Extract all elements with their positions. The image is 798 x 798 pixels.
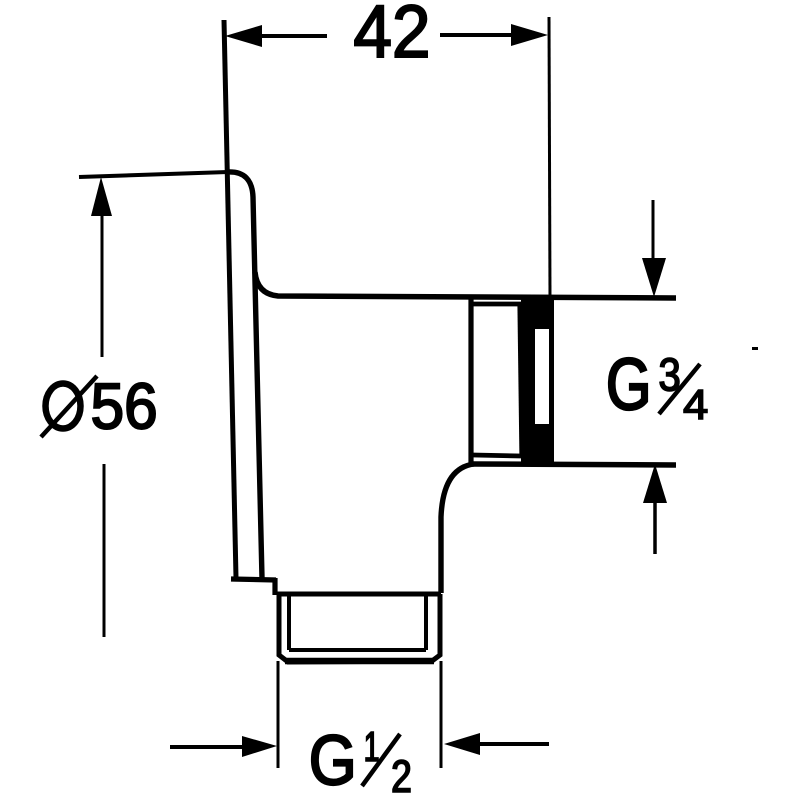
G1/2 dimension right arrowhead [444, 733, 480, 755]
diameter-56 upper arrow tail [101, 212, 104, 357]
neck top fillet and outlet top face line with extension [255, 272, 676, 298]
scan speck [752, 347, 758, 350]
G3/4 lower arrowhead [643, 464, 667, 503]
G3/4 female thread section (dark) [521, 299, 554, 462]
dimension text 56 [93, 383, 155, 429]
42 right extension line [549, 17, 550, 298]
G1/2 thread end face thick line [285, 658, 434, 665]
G1/2 dimension line right tail [478, 742, 549, 746]
G3/4 upper arrowhead [642, 258, 666, 297]
dimension text 42 [355, 5, 427, 57]
G3/4 upper arrow tail [652, 200, 655, 260]
G1/2 extension line below thread right [440, 661, 443, 768]
body lower-right fillet and right wall [441, 464, 474, 593]
diameter-56 lower dimension line [103, 464, 106, 637]
G1/2 male thread outline [277, 594, 441, 662]
G1/2 thread inner right edge [424, 596, 428, 650]
G1/2 dimension line left tail [170, 745, 245, 749]
thread label G 3/4 [609, 358, 707, 419]
flange bottom edge [231, 579, 276, 580]
G1/2 dimension left arrowhead [242, 736, 277, 757]
G1/2 extension line below thread left [277, 661, 280, 768]
42 dimension right arrowhead [511, 24, 548, 46]
outlet cap left edge [468, 297, 473, 464]
42 dimension left arrowhead [225, 25, 262, 47]
wall flange left edge + 42 left extension line [224, 20, 236, 578]
42 dimension line left segment [258, 34, 327, 38]
thread label G 1/2 [312, 732, 410, 792]
diameter symbol of dimension 56 [41, 376, 97, 437]
G1/2 thread root line [289, 648, 426, 652]
step below flange [272, 578, 277, 595]
outlet cap top inner edge [471, 302, 521, 307]
42 dimension line right segment [440, 33, 513, 37]
G3/4 thread bore window [535, 329, 549, 424]
G3/4 lower arrow tail [653, 502, 657, 554]
outlet underside line with extension [472, 464, 676, 465]
outlet cap bottom inner edge [473, 455, 521, 456]
outlet cap right edge [520, 304, 522, 456]
flange top edge + diameter-56 extension line [79, 172, 228, 177]
diameter-56 upper arrowhead [91, 177, 112, 216]
G1/2 thread inner left edge [287, 596, 291, 650]
flange top-right rounded corner and right edge [228, 172, 262, 578]
